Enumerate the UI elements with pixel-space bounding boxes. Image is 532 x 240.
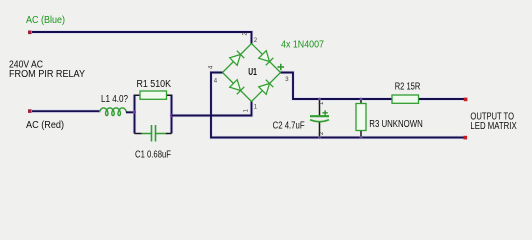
resistor R3 [356, 104, 366, 131]
svg-text:LED MATRIX: LED MATRIX [470, 121, 517, 132]
wire RC block to bridge pin 1 [172, 102, 252, 116]
wire RC block left bar [134, 95, 136, 134]
svg-text:AC (Red): AC (Red) [26, 120, 64, 131]
svg-text:R3 UNKNOWN: R3 UNKNOWN [369, 119, 423, 130]
wire AC Blue to bridge pin 2 [32, 32, 252, 44]
node AC Blue terminal (red square) [28, 31, 32, 35]
capacitor C2 [310, 116, 329, 122]
svg-text:1: 1 [254, 105, 258, 111]
wire plus rail right of R2 [419, 98, 465, 100]
wire AC Red to L1 [32, 110, 100, 112]
svg-text:AC (Blue): AC (Blue) [26, 15, 65, 26]
node output minus terminal (red square) [464, 136, 468, 140]
capacitor C2 leads [319, 99, 321, 138]
svg-text:U1: U1 [248, 67, 257, 78]
junction C2 top [318, 98, 321, 101]
svg-text:C1 0.68uF: C1 0.68uF [135, 150, 171, 161]
capacitor C1 [142, 125, 167, 142]
diode D3 (left to bottom) [223, 73, 252, 102]
bridge rectifier U1 [223, 44, 281, 102]
wire C1 bottom branch [135, 133, 172, 135]
node output plus terminal (red square) [464, 98, 468, 102]
node AC Red terminal (red square) [28, 109, 32, 113]
wire R1 leads [135, 94, 172, 96]
svg-text:FROM PIR RELAY: FROM PIR RELAY [9, 69, 85, 80]
junction on right bar [170, 114, 173, 117]
junction C2 bottom [318, 136, 321, 139]
svg-text:1: 1 [244, 108, 250, 112]
svg-text:3: 3 [285, 77, 289, 83]
svg-text:R1 510K: R1 510K [137, 79, 172, 90]
junction R3 top [360, 98, 363, 101]
inductor L1 [100, 108, 127, 116]
resistor R1 [140, 91, 167, 99]
svg-text:C2 4.7uF: C2 4.7uF [273, 121, 305, 132]
label plus at bridge pin 3 [278, 64, 285, 71]
junction on left bar [133, 110, 136, 113]
diode D2 (top to right) [252, 44, 281, 73]
diode D1 (left to top) [223, 44, 252, 73]
label plus at C2 [322, 110, 327, 115]
wire glow layer [32, 32, 465, 138]
wire bridge pin 3 stub to plus rail [281, 73, 393, 100]
svg-text:4x 1N4007: 4x 1N4007 [281, 40, 324, 51]
svg-text:R2 15R: R2 15R [395, 82, 421, 93]
resistor R3 leads [360, 99, 362, 138]
svg-text:4: 4 [209, 65, 215, 69]
junction R3 bottom [360, 136, 363, 139]
svg-text:4: 4 [214, 79, 218, 85]
resistor R2 [392, 95, 419, 103]
circuit schematic: 240V AC PIR relay to LED matrix supply [0, 0, 532, 170]
wire RC block right bar [171, 95, 173, 134]
svg-text:L1 4.0?: L1 4.0? [101, 94, 128, 105]
wire L1 to RC block [126, 111, 135, 113]
diode D4 (bottom to right) [252, 73, 281, 102]
wire bridge pin 4 stub to bottom rail [211, 73, 465, 138]
svg-text:2: 2 [254, 38, 258, 44]
